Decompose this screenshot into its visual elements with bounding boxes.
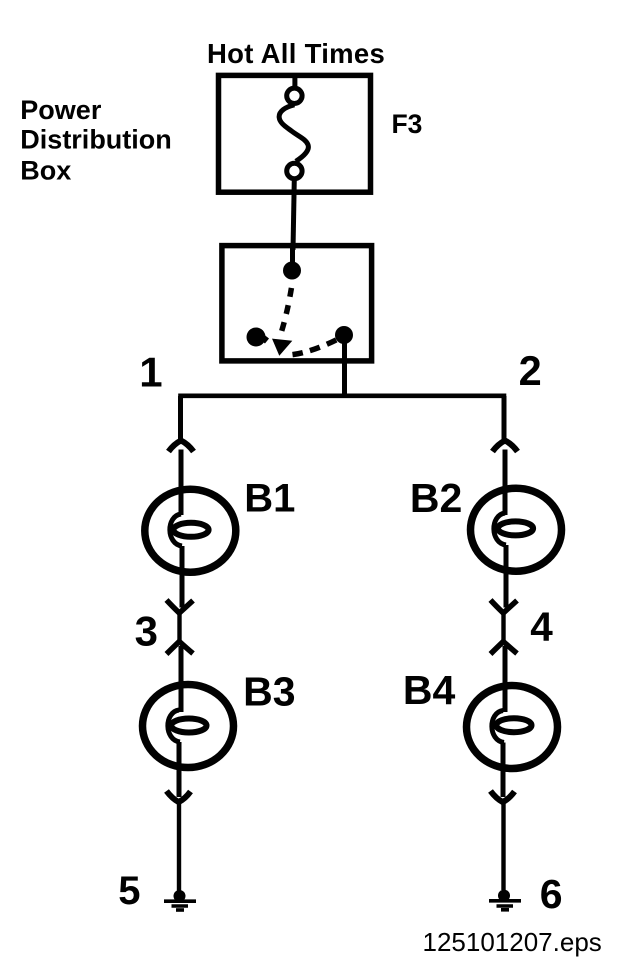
switch box outline [222,246,372,361]
switch actuator tail [258,334,268,342]
ground G6 [489,890,521,910]
svg-text:1: 1 [139,348,162,395]
wire flow arrow to ground left [177,803,181,891]
fuse F3 [279,77,308,179]
connector 3 pin [177,613,181,642]
svg-text:B2: B2 [410,475,462,521]
switch throw dashed arc [293,338,342,355]
svg-text:B1: B1 [244,476,295,520]
wire fuse box to switch box [293,179,294,250]
bus wire horizontal [181,396,505,401]
svg-text:3: 3 [135,607,158,654]
wire right branch from bus to arrow [502,396,507,442]
wire flow arrow to ground right [501,803,505,890]
wire switch box top to common node [290,248,295,270]
lamp B2 [471,488,562,571]
lamp B3 [143,685,234,768]
lamp B4 [467,686,558,769]
flow arrow down right branch [491,791,515,802]
ground G5 [164,890,196,910]
svg-text:5: 5 [118,869,140,913]
wire connector 4 to lamp B4 [503,646,508,712]
svg-text:Distribution: Distribution [20,124,171,154]
wire right branch arrow to lamp B2 [503,450,508,516]
connector 4 pin [501,613,505,642]
svg-text:B3: B3 [243,668,295,714]
wire lamp B2 to connector 4 [504,545,509,608]
wire lamp B1 to connector 3 [180,546,185,608]
wire left branch from bus to arrow [178,396,183,442]
svg-text:4: 4 [530,604,553,650]
connector 3 male chevron [167,642,194,655]
flow arrow up right branch [493,441,518,452]
switch contact right node [335,326,353,344]
switch contact left node [247,328,266,347]
wire lamp B3 to flow arrow [177,742,182,797]
svg-text:Hot All Times: Hot All Times [207,38,385,69]
svg-text:F3: F3 [392,109,423,139]
flow arrow up left branch [169,441,194,452]
svg-text:Power: Power [20,95,102,125]
label Power Distribution Box [20,95,171,185]
flow arrow down left branch [167,791,191,802]
svg-text:125101207.eps: 125101207.eps [423,927,602,957]
wire connector 3 to lamp B3 [179,646,184,712]
svg-text:B4: B4 [403,667,456,713]
power distribution box outline [219,75,371,192]
svg-text:2: 2 [519,347,542,394]
lamp B1 [145,489,236,572]
wire lamp B4 to flow arrow [501,743,506,798]
svg-text:Box: Box [20,155,71,185]
wire left branch arrow to lamp B1 [179,450,184,516]
connector 4 male chevron [491,642,518,655]
svg-text:6: 6 [540,871,563,917]
connector 3 female chevron [167,600,194,613]
switch actuator dashed wire [280,281,293,338]
switch actuator arrowhead [272,339,292,356]
switch common node [283,262,301,280]
wire switch output to bus [342,335,347,398]
connector 4 female chevron [491,600,518,613]
